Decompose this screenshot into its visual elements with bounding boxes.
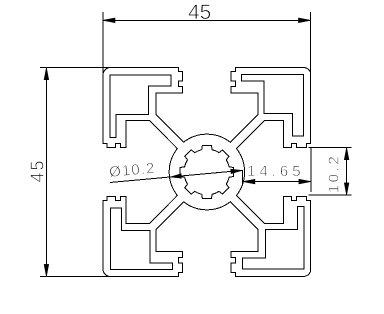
corner cavity TR — [241, 74, 303, 136]
arrowhead: 10.2 dim bottom — [344, 183, 349, 195]
corner cavity BR — [243, 207, 304, 269]
corner cavity TL — [110, 75, 171, 137]
arrowhead: 14.65 dim right — [299, 179, 311, 184]
dim: left 45 extension lines and line — [40, 67, 111, 69]
arrowhead: left 45 dim top — [44, 68, 49, 80]
text 45 left (rotated) — [28, 158, 49, 182]
text dia 10.2 — [108, 160, 156, 181]
arrowhead: top 45 dim left — [103, 18, 115, 23]
arrowhead: bore dia leader left — [170, 174, 181, 178]
slanted bore diameter leader line — [110, 170, 243, 182]
arrowhead: left 45 dim bottom — [44, 264, 49, 276]
serrated center bore — [180, 145, 233, 198]
corner cavity BL — [110, 208, 172, 270]
dim: right 10.2 extension lines and line — [309, 147, 352, 149]
profile outer outline — [103, 68, 311, 277]
arrowhead: top 45 dim right — [299, 18, 311, 23]
arrowhead: 14.65 dim left — [243, 179, 255, 184]
arrowhead: bore dia leader right — [231, 169, 242, 173]
text 45 top — [188, 1, 211, 25]
dim: top 45 extension lines and line — [102, 12, 104, 75]
text 14.65 — [247, 163, 305, 180]
dim: 14.65 line and extension lines — [243, 181, 311, 183]
text 10.2 right (rotated) — [325, 154, 342, 194]
arrowhead: 10.2 dim top — [344, 148, 349, 160]
